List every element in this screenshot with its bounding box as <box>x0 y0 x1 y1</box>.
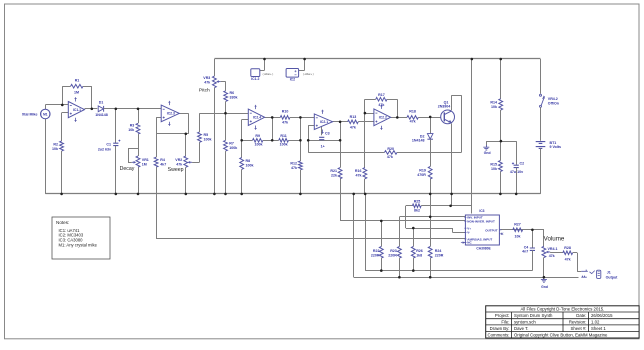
svg-text:220R: 220R <box>435 253 444 257</box>
svg-text:R26: R26 <box>416 249 423 253</box>
svg-text:2N3904: 2N3904 <box>438 105 451 109</box>
svg-text:Gnd: Gnd <box>484 151 491 155</box>
svg-text:R3: R3 <box>130 124 135 128</box>
svg-text:47k: 47k <box>387 155 393 159</box>
svg-text:R6: R6 <box>230 91 235 95</box>
svg-text:47u 10v: 47u 10v <box>510 170 523 174</box>
svg-text:Notes:: Notes: <box>56 220 69 225</box>
svg-text:R2: R2 <box>53 142 58 146</box>
svg-text:File:: File: <box>501 319 509 324</box>
svg-text:VR4.1: VR4.1 <box>548 247 558 251</box>
svg-text:R22: R22 <box>373 249 380 253</box>
svg-text:10k: 10k <box>52 147 58 151</box>
svg-text:4k7: 4k7 <box>160 163 166 167</box>
svg-text:M1: Any crystal mike: M1: Any crystal mike <box>59 243 98 248</box>
svg-text:VR2: VR2 <box>175 158 182 162</box>
svg-text:J1: J1 <box>607 270 611 274</box>
svg-text:V+: V+ <box>467 226 471 230</box>
svg-text:R25: R25 <box>414 200 421 204</box>
svg-text:100k: 100k <box>229 146 237 150</box>
svg-text:R27: R27 <box>514 223 521 227</box>
svg-text:Project:: Project: <box>495 313 510 318</box>
svg-text:47k: 47k <box>176 163 182 167</box>
svg-text:9 Volts: 9 Volts <box>550 145 562 149</box>
svg-text:NON-INVER. INPUT: NON-INVER. INPUT <box>467 219 495 223</box>
svg-text:IC2: IC2 <box>290 78 295 82</box>
svg-text:VR3: VR3 <box>203 76 210 80</box>
svg-text:IC2.2: IC2.2 <box>379 116 387 120</box>
svg-text:47k: 47k <box>204 81 210 85</box>
svg-text:R16: R16 <box>355 169 362 173</box>
svg-text:47k: 47k <box>356 174 362 178</box>
svg-text:Original Copyright Clive Butto: Original Copyright Clive Button, EaMM Ma… <box>514 333 608 338</box>
svg-text:R10: R10 <box>282 110 289 114</box>
svg-text:4n7: 4n7 <box>522 249 528 253</box>
svg-text:10k: 10k <box>491 167 497 171</box>
svg-text:1k8: 1k8 <box>416 253 422 257</box>
svg-text:R19: R19 <box>419 168 426 172</box>
svg-text:220R: 220R <box>371 253 380 257</box>
svg-text:47k: 47k <box>410 119 416 123</box>
svg-text:Date:: Date: <box>576 313 586 318</box>
svg-text:Sheet #:: Sheet #: <box>570 326 586 331</box>
svg-text:47k: 47k <box>291 166 297 170</box>
svg-text:R11: R11 <box>280 134 286 138</box>
svg-text:100k: 100k <box>246 164 254 168</box>
svg-text:47k: 47k <box>350 125 356 129</box>
svg-text:R4: R4 <box>160 158 165 162</box>
svg-text:R1: R1 <box>75 79 80 83</box>
svg-text:47k: 47k <box>565 258 571 262</box>
svg-text:220R: 220R <box>388 253 397 257</box>
svg-text:Sweep: Sweep <box>168 167 184 173</box>
svg-text:IC2.4: IC2.4 <box>253 116 261 120</box>
svg-text:IC2.3: IC2.3 <box>167 112 175 116</box>
svg-text:OUTPUT: OUTPUT <box>485 229 498 233</box>
svg-text:Pitch: Pitch <box>199 87 210 93</box>
svg-text:8k2: 8k2 <box>414 209 420 213</box>
svg-text:M1: M1 <box>43 112 48 116</box>
svg-text:Output: Output <box>606 275 619 279</box>
svg-text:R17: R17 <box>378 93 385 97</box>
svg-text:C3: C3 <box>325 132 330 136</box>
svg-text:Revision:: Revision: <box>569 319 587 324</box>
svg-text:syntom.sch: syntom.sch <box>514 319 536 324</box>
svg-text:R18: R18 <box>409 109 416 113</box>
svg-text:R13: R13 <box>350 115 357 119</box>
svg-text:Volume: Volume <box>544 235 565 242</box>
svg-text:2u2 63v: 2u2 63v <box>98 147 111 151</box>
svg-text:1N4148: 1N4148 <box>412 139 425 143</box>
svg-text:330k: 330k <box>230 95 238 99</box>
svg-text:26/06/2015: 26/06/2015 <box>591 313 613 318</box>
svg-text:R15: R15 <box>490 162 497 166</box>
svg-text:Off/On: Off/On <box>548 102 559 106</box>
svg-text:R7: R7 <box>229 141 234 145</box>
svg-text:R8: R8 <box>246 159 251 163</box>
svg-text:R12: R12 <box>290 161 297 165</box>
svg-text:1M: 1M <box>142 163 147 167</box>
svg-text:Sheet 1: Sheet 1 <box>591 326 606 331</box>
svg-text:IC1.1: IC1.1 <box>73 108 81 112</box>
svg-text:10k: 10k <box>128 128 134 132</box>
svg-text:VR1: VR1 <box>142 158 149 162</box>
svg-text:470R: 470R <box>417 173 426 177</box>
svg-text:( other+ ): ( other+ ) <box>303 72 314 76</box>
svg-text:47k: 47k <box>378 103 384 107</box>
svg-text:IC1.2: IC1.2 <box>251 77 259 81</box>
svg-text:Comments:: Comments: <box>488 333 510 338</box>
svg-text:1N4148: 1N4148 <box>95 113 108 117</box>
svg-text:R9: R9 <box>255 134 260 138</box>
svg-text:VR4.2: VR4.2 <box>548 97 558 101</box>
svg-text:R21: R21 <box>330 169 337 173</box>
svg-text:V-: V- <box>467 231 470 235</box>
svg-text:D1: D1 <box>99 100 104 104</box>
svg-text:Drawn By:: Drawn By: <box>490 326 510 331</box>
svg-text:IC2.1: IC2.1 <box>320 120 328 124</box>
svg-text:Decay: Decay <box>120 166 135 172</box>
svg-text:R24: R24 <box>435 249 442 253</box>
svg-text:R20: R20 <box>387 147 394 151</box>
svg-text:Syntom Drum Synth: Syntom Drum Synth <box>514 313 553 318</box>
svg-text:R14: R14 <box>490 101 497 105</box>
svg-text:All Files Copyright D-Tone Ele: All Files Copyright D-Tone Electronics 2… <box>520 307 604 312</box>
svg-text:100k: 100k <box>204 138 212 142</box>
svg-text:1+: 1+ <box>321 145 325 149</box>
svg-text:100k: 100k <box>280 142 288 146</box>
svg-text:CA3080E: CA3080E <box>476 247 491 251</box>
svg-text:1.02: 1.02 <box>591 319 600 324</box>
svg-text:R23: R23 <box>390 249 397 253</box>
svg-text:Gnd: Gnd <box>541 285 548 289</box>
svg-text:R5: R5 <box>204 133 209 137</box>
svg-text:47k: 47k <box>282 121 288 125</box>
svg-text:100k: 100k <box>255 142 263 146</box>
svg-text:( other+ ): ( other+ ) <box>263 72 274 76</box>
svg-text:Dave T.: Dave T. <box>514 326 529 331</box>
svg-text:C1: C1 <box>106 142 111 146</box>
svg-text:22k: 22k <box>331 174 337 178</box>
svg-text:47k: 47k <box>549 254 555 258</box>
svg-text:10k: 10k <box>515 235 521 239</box>
svg-text:1M: 1M <box>74 91 79 95</box>
svg-text:Xtal Mike: Xtal Mike <box>22 112 38 116</box>
svg-text:IC3: IC3 <box>479 209 484 213</box>
svg-text:C2: C2 <box>520 161 525 165</box>
svg-text:R28: R28 <box>564 246 571 250</box>
svg-text:10k: 10k <box>491 105 497 109</box>
